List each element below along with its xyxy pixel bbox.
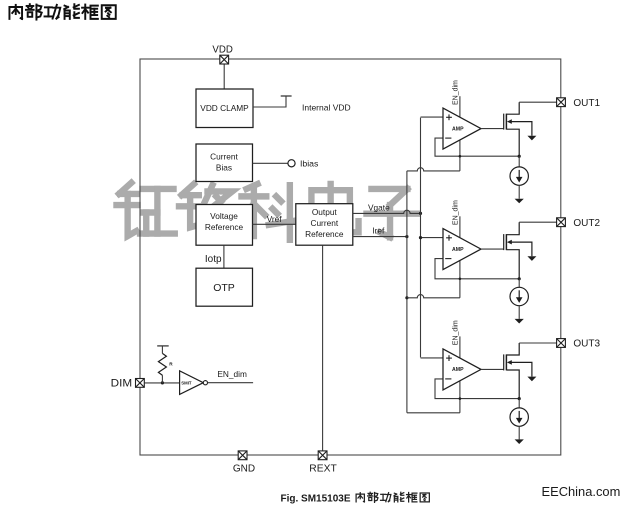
substrate arrow ch2: [527, 256, 536, 261]
svg-text:GND: GND: [233, 463, 255, 474]
svg-text:Current: Current: [210, 152, 238, 162]
wire gate drive ch2: [481, 248, 504, 250]
bus Iref vertical: [406, 171, 408, 413]
wire source to current sink ch2: [518, 279, 520, 288]
block VDD CLAMP: [196, 89, 253, 128]
pin REXT: [318, 451, 327, 460]
schmitt trigger SMIT: [180, 371, 204, 395]
pin GND: [238, 451, 247, 460]
wire DIM to schmitt: [144, 382, 179, 384]
block OTP: [196, 268, 253, 306]
svg-text:REXT: REXT: [309, 463, 337, 474]
node Iref tap ch2: [405, 296, 408, 299]
svg-text:Iref: Iref: [372, 226, 385, 236]
wire gate drive ch1: [481, 128, 504, 130]
svg-text:Current: Current: [310, 218, 338, 228]
wire drain to output pin ch1: [519, 101, 556, 103]
substrate arrow ch1: [527, 136, 536, 141]
block Current Bias: [196, 144, 253, 182]
current source I1: [510, 167, 528, 185]
wire Vref: [253, 223, 296, 225]
wire inverting feedback ch2: [435, 259, 519, 279]
op-amp AMP3: [443, 349, 481, 390]
svg-text:EN_dim: EN_dim: [452, 80, 459, 105]
block Output Current Reference: [296, 204, 353, 246]
chip boundary rectangle: [140, 59, 561, 455]
svg-text:OUT1: OUT1: [573, 98, 600, 109]
ground arrow ch3: [515, 439, 524, 444]
pin DIM: [136, 379, 145, 388]
node source junction ch1: [518, 155, 521, 158]
node Iref bus join: [405, 235, 408, 238]
node Vgate tap ch2: [419, 236, 422, 239]
wire Iref: [353, 236, 407, 238]
ground arrow ch1: [515, 199, 524, 204]
node feedback-EN junction ch1: [459, 155, 462, 158]
wire non-inverting input ch3: [421, 357, 444, 359]
svg-text:EN_dim: EN_dim: [452, 320, 459, 345]
svg-text:OUT2: OUT2: [573, 218, 600, 229]
svg-text:AMP: AMP: [452, 126, 464, 132]
node source junction ch2: [518, 277, 521, 280]
wire internal VDD tap: [253, 96, 286, 107]
svg-text:Vgate: Vgate: [368, 202, 390, 212]
svg-text:Reference: Reference: [305, 229, 344, 239]
current source I2: [510, 287, 528, 305]
wire inverting feedback ch1: [435, 138, 519, 156]
watermark 钲铭科电子: [116, 183, 174, 236]
wire VDD pin to VDD CLAMP: [223, 64, 225, 90]
wire REXT sense: [322, 245, 324, 451]
transistor M3: [504, 343, 532, 399]
power tap above R: [157, 345, 169, 347]
wire non-inverting input ch1: [421, 116, 444, 118]
svg-text:SMIT: SMIT: [181, 381, 192, 386]
svg-text:OTP: OTP: [213, 282, 235, 294]
node feedback-EN junction ch3: [459, 397, 462, 400]
svg-text:Output: Output: [312, 207, 338, 217]
wire non-inverting input ch2: [421, 237, 444, 239]
node DIM-resistor junction: [161, 381, 164, 384]
op-amp AMP1: [443, 108, 481, 149]
wire drain to output pin ch3: [519, 342, 556, 344]
wire drain to output pin ch2: [519, 221, 556, 223]
substrate arrow ch3: [527, 377, 536, 382]
pin VDD: [220, 55, 229, 64]
svg-text:EN_dim: EN_dim: [452, 200, 459, 225]
ground arrow ch2: [515, 319, 524, 324]
svg-text:OUT3: OUT3: [573, 339, 600, 350]
wire gate drive ch3: [481, 368, 504, 370]
wire source to current sink ch1: [518, 156, 520, 167]
pin OUT3: [557, 339, 566, 348]
node Vgate bus join: [419, 212, 422, 215]
svg-text:EEChina.com: EEChina.com: [542, 484, 621, 499]
inverter bubble: [203, 381, 207, 385]
block Voltage Reference: [196, 205, 253, 246]
transistor M1: [504, 102, 532, 156]
bus Vgate vertical: [420, 118, 422, 358]
wire Iotp: [223, 245, 225, 268]
svg-text:Vref: Vref: [267, 214, 283, 224]
op-amp AMP2: [443, 229, 481, 270]
wire sink to ground arrow ch3: [518, 426, 520, 439]
svg-text:Ibias: Ibias: [300, 159, 319, 169]
node feedback-EN junction ch2: [459, 278, 462, 281]
transistor M2: [504, 222, 532, 279]
wire Vgate (hops Iref bus): [353, 210, 421, 213]
wire EN_dim output: [208, 382, 254, 384]
resistor R: [161, 375, 163, 383]
svg-text:Internal VDD: Internal VDD: [302, 102, 351, 112]
svg-text:Reference: Reference: [205, 222, 244, 232]
power tap Internal VDD: [281, 95, 292, 97]
svg-text:AMP: AMP: [452, 247, 464, 253]
svg-text:AMP: AMP: [452, 367, 464, 373]
svg-text:Bias: Bias: [216, 163, 232, 173]
svg-text:EN_dim: EN_dim: [217, 369, 247, 379]
wire sink to ground arrow ch2: [518, 306, 520, 319]
pin OUT2: [557, 218, 566, 227]
current source I3: [510, 408, 528, 426]
pin OUT1: [557, 98, 566, 107]
wire source to current sink ch3: [518, 399, 520, 408]
wire EN_dim entry ch3: [459, 336, 461, 412]
svg-text:DIM: DIM: [111, 378, 133, 390]
wire inverting feedback ch3: [435, 379, 519, 399]
title 内部功能框图: [9, 5, 22, 19]
wire EN_dim entry ch1: [459, 96, 461, 171]
svg-text:Voltage: Voltage: [210, 211, 238, 221]
wire EN_dim entry ch2: [459, 216, 461, 297]
wire Iref tap ch1 (hops Vgate bus): [407, 168, 460, 171]
svg-text:Iotp: Iotp: [205, 254, 222, 265]
terminal Ibias: [288, 160, 295, 167]
svg-text:Fig. SM15103E: Fig. SM15103E: [281, 493, 351, 504]
wire Iref tap ch3: [407, 412, 460, 414]
svg-text:R: R: [169, 362, 173, 367]
wire Ibias: [253, 162, 288, 164]
wire Iref tap ch2 (hops Vgate bus): [407, 295, 460, 298]
svg-text:VDD CLAMP: VDD CLAMP: [200, 103, 249, 113]
node source junction ch3: [518, 397, 521, 400]
svg-text:VDD: VDD: [212, 45, 232, 56]
wire sink to ground arrow ch1: [518, 185, 520, 198]
